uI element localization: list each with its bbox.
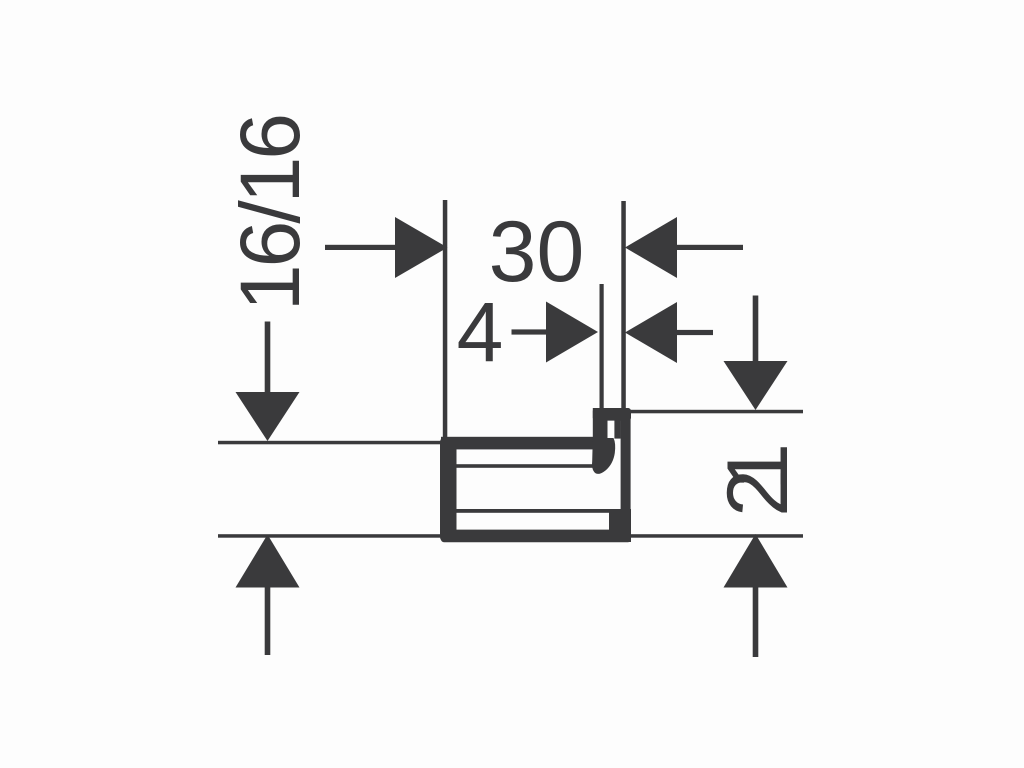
arrowhead 30 right	[625, 217, 677, 278]
arrowhead 30 left	[395, 217, 448, 278]
arrowhead 4 right	[625, 302, 677, 363]
profile bottom wall	[441, 530, 631, 543]
leader line 30 left	[325, 245, 398, 250]
construction line top-right	[626, 410, 803, 414]
profile hook top bar	[593, 408, 631, 421]
leader line 21 down	[753, 296, 759, 365]
leader line 30 right	[674, 245, 743, 250]
profile slot right filler	[614, 408, 620, 439]
profile hook curl	[592, 438, 615, 474]
leader line 4 left	[512, 329, 550, 334]
profile left wall	[440, 437, 457, 542]
construction line bottom	[218, 534, 803, 538]
svg-text:16/16: 16/16	[223, 116, 317, 311]
arrowhead 16/16 down	[236, 392, 300, 441]
extension line right of 30 and 4 dimensions	[621, 201, 626, 411]
arrowhead 21 down	[724, 361, 788, 410]
profile right wall	[621, 408, 631, 542]
extension line inner left of 4 dimension	[600, 284, 604, 412]
profile inner top line	[456, 464, 597, 468]
leader line bottom-right up	[753, 584, 759, 658]
leader line bottom-left up	[265, 583, 271, 655]
arrowhead bottom-left up	[236, 535, 300, 588]
profile top wall	[441, 437, 597, 450]
profile hook left wall	[593, 408, 608, 450]
arrowhead 4 left	[546, 302, 598, 363]
arrowhead bottom-right up	[724, 534, 788, 588]
svg-text:1: 1	[710, 443, 806, 491]
leader line 16/16 down	[265, 322, 271, 396]
leader line 4 right	[674, 330, 713, 335]
profile bottom-right block	[609, 509, 631, 542]
profile inner bottom line	[456, 509, 611, 513]
construction line top-left	[218, 441, 446, 445]
svg-text:4: 4	[457, 285, 504, 379]
extension line left of 30 dimension	[443, 200, 448, 444]
